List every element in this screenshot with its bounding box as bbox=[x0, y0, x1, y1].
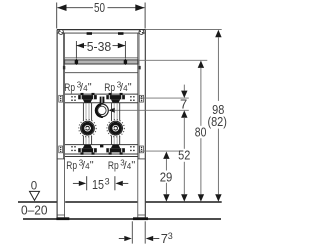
upper mounting plate bbox=[65, 93, 138, 95]
left rail bbox=[56, 30, 58, 218]
foot adjustment marks bbox=[57, 214, 65, 216]
valve right bbox=[107, 120, 124, 137]
rail bottom caps bbox=[57, 158, 65, 160]
upper plate holes bbox=[71, 96, 135, 101]
plate rail bolt group left bbox=[59, 95, 63, 102]
dimension 29 bbox=[163, 152, 169, 159]
corner screw right bbox=[139, 30, 144, 35]
Rp 3/4 labels lower bbox=[66, 159, 94, 172]
dimension 7 (3) bottom bbox=[131, 221, 133, 243]
traverse slider bolts bbox=[75, 59, 78, 65]
svg-text:0: 0 bbox=[31, 180, 37, 192]
corner screw left bbox=[59, 30, 64, 35]
7 top reference line bbox=[140, 97, 189, 99]
water fitting upper left bbox=[78, 93, 97, 103]
floor level line bbox=[18, 201, 57, 203]
svg-text:29: 29 bbox=[160, 169, 173, 184]
lower plate holes bbox=[71, 146, 135, 151]
Rp 3/4 labels upper bbox=[64, 81, 92, 94]
pipe left bbox=[83, 103, 91, 145]
bottom floor line bbox=[23, 218, 221, 220]
frame top bar bbox=[57, 29, 145, 31]
svg-text:5-38: 5-38 bbox=[87, 39, 112, 54]
dimension 5-38 bbox=[76, 41, 125, 59]
foot pads bbox=[56, 217, 69, 220]
dimension 15 (3) bbox=[86, 176, 88, 190]
water fitting lower left bbox=[78, 145, 97, 155]
water fitting lower right bbox=[106, 145, 125, 155]
right rail bbox=[144, 30, 146, 218]
lower plate rail bolt group left bbox=[59, 146, 63, 153]
water fitting upper right bbox=[106, 93, 125, 103]
top bar tabs bbox=[87, 32, 92, 35]
29 reference line bbox=[140, 150, 179, 152]
valve left bbox=[79, 120, 96, 137]
svg-text:(82): (82) bbox=[207, 114, 227, 129]
svg-text:3: 3 bbox=[105, 177, 110, 187]
dimension 50 top bbox=[57, 3, 145, 29]
dimension 80 bbox=[198, 61, 204, 68]
svg-text:0–20: 0–20 bbox=[21, 203, 48, 218]
traverse rail bbox=[65, 57, 138, 59]
lower plate rail bolt group right bbox=[140, 146, 144, 153]
lower central bracket bbox=[100, 145, 103, 148]
svg-text:80: 80 bbox=[195, 125, 207, 140]
central clamp bbox=[100, 97, 105, 103]
lower mounting plate bbox=[65, 144, 138, 146]
svg-text:15: 15 bbox=[92, 177, 104, 192]
pipe right bbox=[112, 103, 120, 145]
plate rail bolt group right bbox=[140, 95, 144, 102]
ring leader arrow bbox=[109, 108, 115, 113]
svg-text:52: 52 bbox=[178, 148, 190, 163]
80 reference line bbox=[138, 59, 207, 61]
svg-text:50: 50 bbox=[94, 0, 105, 15]
traverse lower flange bbox=[65, 72, 138, 74]
drain ring clamp bbox=[96, 104, 109, 117]
svg-text:3: 3 bbox=[168, 231, 173, 241]
dimension 98 (82) bbox=[215, 30, 221, 37]
dimension 7 / 52 bbox=[183, 85, 185, 91]
svg-text:7: 7 bbox=[180, 96, 187, 111]
